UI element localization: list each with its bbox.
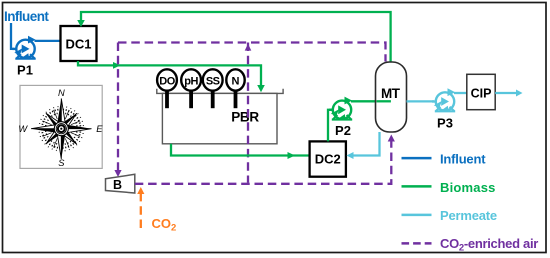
wire co2-air top run to MT (purple dashed)	[118, 43, 386, 62]
svg-text:Influent: Influent	[440, 152, 486, 167]
sensor pH	[189, 90, 193, 108]
pump P3	[432, 88, 455, 111]
svg-text:P3: P3	[437, 116, 453, 131]
legend co2-enriched air	[402, 242, 432, 245]
wire CO2 supply (orange dashed)	[140, 194, 142, 229]
wire DC2 to P2	[328, 110, 332, 142]
svg-text:Influent: Influent	[4, 9, 49, 24]
membrane tank MT	[376, 62, 407, 132]
svg-text:Biomass: Biomass	[440, 180, 496, 195]
pump P2	[329, 97, 352, 120]
pump P1	[13, 36, 36, 59]
svg-text:E: E	[96, 124, 103, 134]
unit DC2	[310, 141, 346, 176]
wire B to MT bottom (purple dashed)	[135, 141, 392, 184]
compass rose	[18, 88, 103, 168]
svg-text:N: N	[232, 76, 240, 88]
svg-text:pH: pH	[184, 76, 198, 88]
svg-text:DO: DO	[159, 76, 175, 88]
svg-text:DC2: DC2	[315, 152, 341, 167]
svg-text:PBR: PBR	[231, 110, 259, 125]
wire MT bottom to DC2 (cyan)	[353, 132, 380, 156]
wire P1 to DC1	[35, 40, 62, 42]
wire co2-air vertical to blower B (purple dashed)	[117, 43, 119, 171]
svg-text:MT: MT	[381, 86, 401, 101]
compass box	[20, 85, 102, 168]
wire P2 to MT	[351, 100, 391, 102]
wire co2-air branch down through PBR (purple dashed)	[247, 43, 249, 183]
reactor PBR tank	[162, 93, 277, 143]
legend biomass	[402, 185, 432, 188]
wire PBR to DC2 (biomass)	[171, 144, 309, 156]
svg-text:Permeate: Permeate	[440, 208, 497, 223]
svg-text:N: N	[58, 88, 65, 98]
svg-text:DC1: DC1	[65, 37, 91, 52]
wire DC1 to PBR	[78, 61, 261, 86]
wire biomass return MT to DC1	[81, 12, 391, 62]
blower B	[106, 174, 135, 193]
sensor N	[234, 90, 238, 108]
wire P2 feed inside MT	[377, 100, 391, 102]
svg-text:CIP: CIP	[471, 87, 492, 101]
sensor SS	[211, 90, 215, 108]
svg-text:S: S	[58, 158, 65, 168]
svg-text:CO2-enriched air: CO2-enriched air	[440, 236, 538, 254]
svg-text:W: W	[18, 124, 28, 134]
svg-text:P1: P1	[17, 63, 33, 78]
wire CIP outlet	[495, 92, 517, 94]
wire MT permeate to P3 (cyan)	[407, 100, 435, 102]
unit CIP	[467, 74, 495, 109]
svg-text:B: B	[113, 178, 122, 192]
legend permeate	[402, 214, 432, 217]
legend influent	[402, 157, 432, 160]
unit DC1	[61, 26, 97, 61]
svg-text:SS: SS	[206, 76, 220, 88]
wire influent inlet to P1	[11, 23, 14, 49]
sensor DO	[165, 90, 169, 108]
wire P3 to CIP	[454, 92, 467, 94]
reactor PBR lid	[157, 89, 283, 94]
svg-text:P2: P2	[335, 123, 351, 138]
